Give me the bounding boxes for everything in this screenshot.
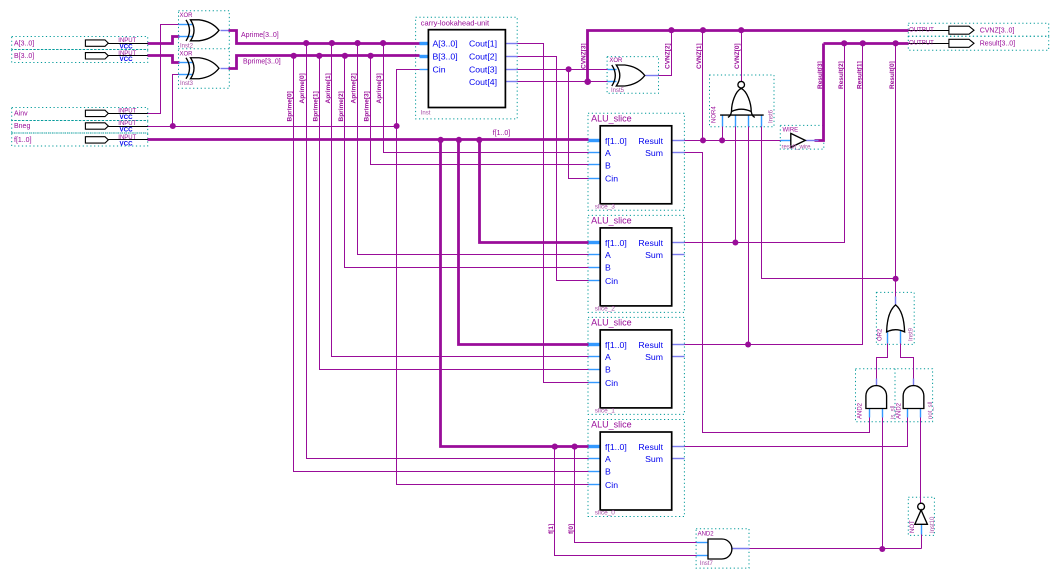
svg-text:AND2: AND2 xyxy=(896,402,902,419)
svg-text:OUTPUT: OUTPUT xyxy=(909,41,934,47)
svg-text:Aprime[1]: Aprime[1] xyxy=(325,73,332,103)
svg-text:CVNZ[3]: CVNZ[3] xyxy=(581,43,588,69)
svg-text:slice_1: slice_1 xyxy=(595,408,616,415)
svg-text:Bprime[1]: Bprime[1] xyxy=(312,91,319,121)
svg-text:AND2: AND2 xyxy=(698,532,715,538)
svg-text:Sum: Sum xyxy=(645,250,663,260)
svg-text:Bprime[3]: Bprime[3] xyxy=(364,91,371,121)
svg-text:B: B xyxy=(605,467,611,477)
svg-text:WIRE: WIRE xyxy=(783,127,799,133)
svg-text:XOR: XOR xyxy=(609,58,623,64)
svg-text:NOR4: NOR4 xyxy=(712,106,718,123)
svg-text:Result: Result xyxy=(638,238,663,248)
svg-text:ALU_slice: ALU_slice xyxy=(591,317,632,327)
svg-text:A: A xyxy=(605,250,611,260)
svg-text:ALU_slice: ALU_slice xyxy=(591,420,632,430)
svg-text:not_sll: not_sll xyxy=(928,402,934,419)
svg-text:B[3..0]: B[3..0] xyxy=(14,53,34,60)
svg-text:CVNZ[0]: CVNZ[0] xyxy=(734,43,741,69)
svg-text:B[3..0]: B[3..0] xyxy=(433,52,458,62)
svg-text:Cout[1]: Cout[1] xyxy=(469,39,497,49)
svg-text:Result[0]: Result[0] xyxy=(889,61,896,89)
svg-text:OR2: OR2 xyxy=(878,328,884,341)
svg-text:B: B xyxy=(605,263,611,273)
svg-text:Result: Result xyxy=(638,340,663,350)
svg-text:Sum: Sum xyxy=(645,352,663,362)
svg-text:Result[2]: Result[2] xyxy=(838,61,845,89)
svg-text:AND2: AND2 xyxy=(858,402,864,419)
svg-text:OUTPUT: OUTPUT xyxy=(909,28,934,34)
svg-text:ALU_slice: ALU_slice xyxy=(591,215,632,225)
svg-text:f[1..0]: f[1..0] xyxy=(14,137,32,144)
svg-text:f[1..0]: f[1..0] xyxy=(605,340,627,350)
svg-text:Sum: Sum xyxy=(645,148,663,158)
svg-text:A: A xyxy=(605,352,611,362)
svg-text:A[3..0]: A[3..0] xyxy=(433,39,458,49)
svg-text:Bprime[3..0]: Bprime[3..0] xyxy=(243,59,281,66)
svg-text:Inst2: Inst2 xyxy=(180,43,194,49)
svg-text:Cout[3]: Cout[3] xyxy=(469,65,497,75)
svg-text:Cin: Cin xyxy=(605,378,618,388)
svg-text:NOT: NOT xyxy=(910,520,916,533)
svg-text:B: B xyxy=(605,365,611,375)
svg-text:f[1]: f[1] xyxy=(548,524,555,534)
svg-text:XOR: XOR xyxy=(180,13,194,19)
svg-text:VCC: VCC xyxy=(120,140,134,147)
svg-text:slice_2: slice_2 xyxy=(595,306,616,313)
svg-text:Cin: Cin xyxy=(605,276,618,286)
svg-text:Inst7: Inst7 xyxy=(700,561,714,567)
svg-text:Result: Result xyxy=(638,136,663,146)
svg-text:B: B xyxy=(605,160,611,170)
svg-text:CVNZ[2]: CVNZ[2] xyxy=(664,43,671,69)
svg-text:Aprime[0]: Aprime[0] xyxy=(299,73,306,103)
svg-text:VCC: VCC xyxy=(120,44,134,51)
svg-text:Aprime[3..0]: Aprime[3..0] xyxy=(241,32,279,39)
svg-text:Inst9: Inst9 xyxy=(909,327,915,341)
svg-text:f[1..0]: f[1..0] xyxy=(605,442,627,452)
svg-text:A[3..0]: A[3..0] xyxy=(14,40,34,47)
svg-text:Cout[2]: Cout[2] xyxy=(469,52,497,62)
svg-text:ALU_slice: ALU_slice xyxy=(591,113,632,123)
svg-text:Inst5: Inst5 xyxy=(611,88,625,94)
svg-text:VCC: VCC xyxy=(120,56,134,63)
svg-text:Inst10: Inst10 xyxy=(930,516,936,533)
svg-text:XOR: XOR xyxy=(180,51,194,57)
svg-text:CVNZ[3..0]: CVNZ[3..0] xyxy=(980,27,1015,34)
svg-text:Result[1]: Result[1] xyxy=(856,61,863,89)
svg-text:Ainv: Ainv xyxy=(14,111,28,118)
svg-text:A: A xyxy=(605,454,611,464)
svg-text:VCC: VCC xyxy=(120,126,134,133)
svg-text:Cin: Cin xyxy=(605,480,618,490)
svg-text:CVNZ[1]: CVNZ[1] xyxy=(696,43,703,69)
svg-text:slice_0: slice_0 xyxy=(595,510,616,517)
svg-text:f[0]: f[0] xyxy=(568,524,575,534)
svg-text:f[1..0]: f[1..0] xyxy=(605,136,627,146)
svg-text:Inst6: Inst6 xyxy=(769,109,775,123)
svg-text:Sum: Sum xyxy=(645,454,663,464)
svg-text:Result[3]: Result[3] xyxy=(817,61,824,89)
svg-text:Cout[4]: Cout[4] xyxy=(469,77,497,87)
svg-text:slice_3: slice_3 xyxy=(595,203,616,210)
svg-text:f[1..0]: f[1..0] xyxy=(493,130,511,137)
svg-text:Bprime[0]: Bprime[0] xyxy=(287,91,294,121)
svg-text:carry-lookahead-unit: carry-lookahead-unit xyxy=(421,19,490,28)
svg-text:Result[3..0]: Result[3..0] xyxy=(980,41,1015,48)
svg-text:f[1..0]: f[1..0] xyxy=(605,238,627,248)
svg-text:Cin: Cin xyxy=(605,174,618,184)
svg-text:Result: Result xyxy=(638,442,663,452)
svg-text:VCC: VCC xyxy=(120,114,134,121)
svg-text:Inst3: Inst3 xyxy=(180,81,194,87)
svg-text:Bneg: Bneg xyxy=(14,123,30,130)
svg-text:Cin: Cin xyxy=(433,65,446,75)
svg-text:Aprime[3]: Aprime[3] xyxy=(376,73,383,103)
svg-text:Bprime[2]: Bprime[2] xyxy=(338,91,345,121)
svg-text:Aprime[2]: Aprime[2] xyxy=(351,73,358,103)
svg-text:A: A xyxy=(605,148,611,158)
svg-text:result_wire: result_wire xyxy=(782,144,812,150)
svg-text:Inst: Inst xyxy=(421,111,431,117)
